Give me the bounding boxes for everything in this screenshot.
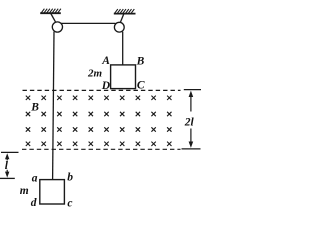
svg-text:C: C [137,80,145,92]
field boundary top dashed [23,89,181,91]
ceiling support left [40,12,61,14]
pulley left [52,22,62,32]
wire horizontal string between pulleys [61,22,116,24]
svg-text:B: B [136,55,145,67]
field boundary bottom dashed [22,148,181,150]
pulley right [114,22,124,32]
dimension 2l arrow up [190,95,192,112]
dimension 2l arrow down [190,129,192,144]
block abcd (mass m) [40,180,65,204]
dimension l ticks [1,151,19,153]
magnetic field crosses [26,96,30,100]
wire right string down to block ABCD [122,32,124,65]
ceiling support right [114,13,136,15]
block ABCD (mass 2m) [111,65,136,89]
svg-text:A: A [101,55,110,67]
svg-text:c: c [67,197,72,209]
svg-text:d: d [31,197,37,209]
svg-text:2l: 2l [184,116,195,128]
dimension l arrow up [6,157,8,161]
svg-text:b: b [67,172,73,184]
right pulley bracket [120,14,124,23]
svg-text:m: m [20,185,29,197]
dimension 2l ticks [184,89,201,91]
svg-text:2m: 2m [87,68,103,80]
svg-text:a: a [32,173,38,185]
wire left string down to block abcd [53,32,54,180]
svg-text:B: B [30,102,39,114]
left pulley bracket [51,14,56,24]
dimension l arrow down [6,170,8,175]
